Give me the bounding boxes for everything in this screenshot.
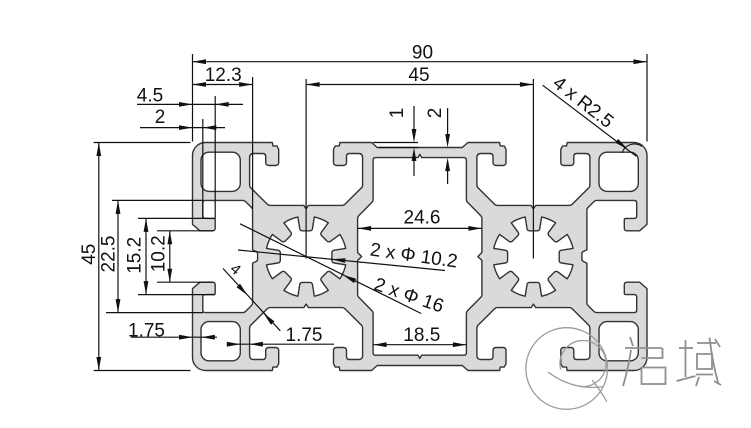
- bottom-left corner square cavity: [201, 322, 240, 361]
- svg-text:12.3: 12.3: [205, 65, 242, 86]
- leader 2 x PHI 10.2 (center bores): [238, 250, 445, 271]
- leader 2 x PHI 16 (star bore): [240, 224, 421, 314]
- svg-text:10.2: 10.2: [148, 235, 169, 272]
- central chamber cavity (24.6/18.5): [358, 154, 482, 358]
- leader 4 (diagonal wall thickness): [223, 269, 280, 331]
- dimension 45 (top, between slot centerlines): [306, 84, 533, 86]
- left center bore (8-tooth star, PHI16/PHI10.2): [267, 217, 346, 296]
- dimension 24.6 (central chamber width): [358, 227, 482, 229]
- svg-text:1.75: 1.75: [128, 321, 165, 342]
- dimension 22.5 (left): [112, 199, 203, 201]
- top-right corner square cavity: [599, 152, 638, 191]
- watermark character QI: [630, 337, 633, 346]
- centerline right slot / star (x=533.4): [532, 79, 534, 259]
- dimension 1.75 (bottom, second wall): [228, 343, 334, 345]
- svg-text:18.5: 18.5: [403, 325, 440, 346]
- bottom-right corner square cavity: [599, 322, 638, 361]
- watermark logo Q tail: [592, 380, 607, 402]
- dimension 1 (top center recess depth): [373, 142, 418, 144]
- svg-text:45: 45: [79, 244, 100, 265]
- dimension 18.5 (chamber bottom width): [373, 344, 466, 346]
- extension line x=252.6 (12.3 wall): [252, 77, 254, 209]
- dimension 4.5: [137, 103, 243, 105]
- right center bore (8-tooth star, PHI16/PHI10.2): [494, 217, 573, 296]
- extension line x=202.8 (2): [202, 119, 204, 218]
- extension line profile left edge (x=192.5): [192, 54, 194, 142]
- dimension 2 (left): [140, 127, 225, 129]
- svg-text:45: 45: [408, 65, 429, 86]
- watermark character YU: [679, 347, 693, 349]
- watermark logo swoosh: [548, 372, 604, 387]
- extension line profile right edge (x=647): [646, 54, 648, 142]
- svg-text:90: 90: [412, 43, 433, 64]
- dimension 12.3 (top left): [193, 84, 253, 86]
- dimension 15.2 (left): [138, 217, 215, 219]
- watermark logo inner Q ring: [560, 341, 606, 387]
- watermark logo outer circle: [526, 328, 608, 410]
- label and leader 4 x R2.5 (corner radius): [543, 85, 637, 156]
- svg-text:2: 2: [425, 108, 446, 119]
- extension line x=215.2 (4.5): [214, 96, 216, 218]
- svg-text:1.75: 1.75: [286, 325, 323, 346]
- top-left corner square cavity: [201, 152, 240, 191]
- aluminium profile 45x90 outer contour with T-slots: [193, 143, 648, 371]
- dimension 2 (top center membrane): [447, 108, 449, 136]
- dimension 10.2 (left): [157, 230, 213, 232]
- svg-text:24.6: 24.6: [404, 208, 441, 229]
- centerline left slot / star (x=306.1): [305, 79, 307, 259]
- dimension 45 (left, overall height): [94, 142, 191, 144]
- svg-text:4.5: 4.5: [137, 86, 163, 107]
- svg-text:22.5: 22.5: [99, 236, 120, 273]
- dimension 90 (top): [193, 61, 648, 63]
- dimension 1.75 (bottom left wall): [131, 336, 217, 338]
- svg-text:2: 2: [155, 107, 166, 128]
- svg-text:15.2: 15.2: [125, 237, 146, 274]
- svg-text:1: 1: [387, 108, 408, 119]
